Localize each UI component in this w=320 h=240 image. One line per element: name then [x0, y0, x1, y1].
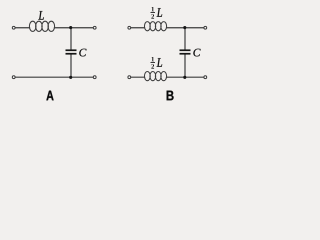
junction dot A bottom	[69, 76, 72, 79]
junction dot A top	[69, 26, 72, 29]
wire: A top-left segment	[15, 27, 29, 29]
inductor 1/2 L (circuit B bottom coil, 4 loops)	[144, 72, 166, 81]
label A	[46, 91, 53, 101]
open terminal A bottom-left	[12, 76, 15, 79]
junction dot B bottom	[183, 76, 186, 79]
inductor 1/2 L (circuit B top coil, 4 loops)	[144, 22, 166, 31]
junction dot B top	[183, 26, 186, 29]
wire: A top-right segment	[54, 27, 93, 29]
open terminal B bottom-right	[204, 76, 207, 79]
wire: A capacitor upper lead	[70, 28, 72, 50]
fraction denominator 2 (top)	[151, 14, 154, 18]
label 1/2 L (bottom): fraction numerator 1	[151, 57, 163, 69]
label 1/2 L (top): fraction numerator 1	[151, 7, 163, 19]
wire: B bottom-left segment	[131, 76, 145, 78]
label C (B)	[193, 49, 200, 57]
wire: B top-right segment	[167, 27, 204, 29]
fraction bar (bottom)	[151, 62, 156, 64]
wire: B top-left segment	[131, 27, 145, 29]
label B	[167, 91, 174, 101]
label C (A)	[79, 49, 86, 57]
fraction denominator 2 (bottom)	[151, 64, 154, 68]
capacitor C (circuit A)	[66, 50, 77, 54]
wire: A bottom rail	[15, 76, 93, 78]
open terminal A bottom-right	[93, 76, 96, 79]
open terminal B top-left	[128, 26, 131, 29]
open terminal A top-left	[12, 26, 15, 29]
open terminal B bottom-left	[128, 76, 131, 79]
wire: A capacitor lower lead	[70, 55, 72, 78]
open terminal A top-right	[93, 26, 96, 29]
wire: B bottom-right segment	[167, 76, 204, 78]
label L of 1/2 L (bottom)	[157, 58, 163, 67]
wire: B capacitor lower lead	[184, 55, 186, 78]
wire: B capacitor upper lead	[184, 28, 186, 50]
fraction bar (top)	[151, 12, 156, 14]
inductor L (circuit A coil, 4 loops)	[29, 21, 54, 31]
open terminal B top-right	[204, 26, 207, 29]
label L of 1/2 L (top)	[157, 8, 163, 17]
capacitor C (circuit B)	[180, 50, 191, 54]
label L	[38, 11, 44, 20]
